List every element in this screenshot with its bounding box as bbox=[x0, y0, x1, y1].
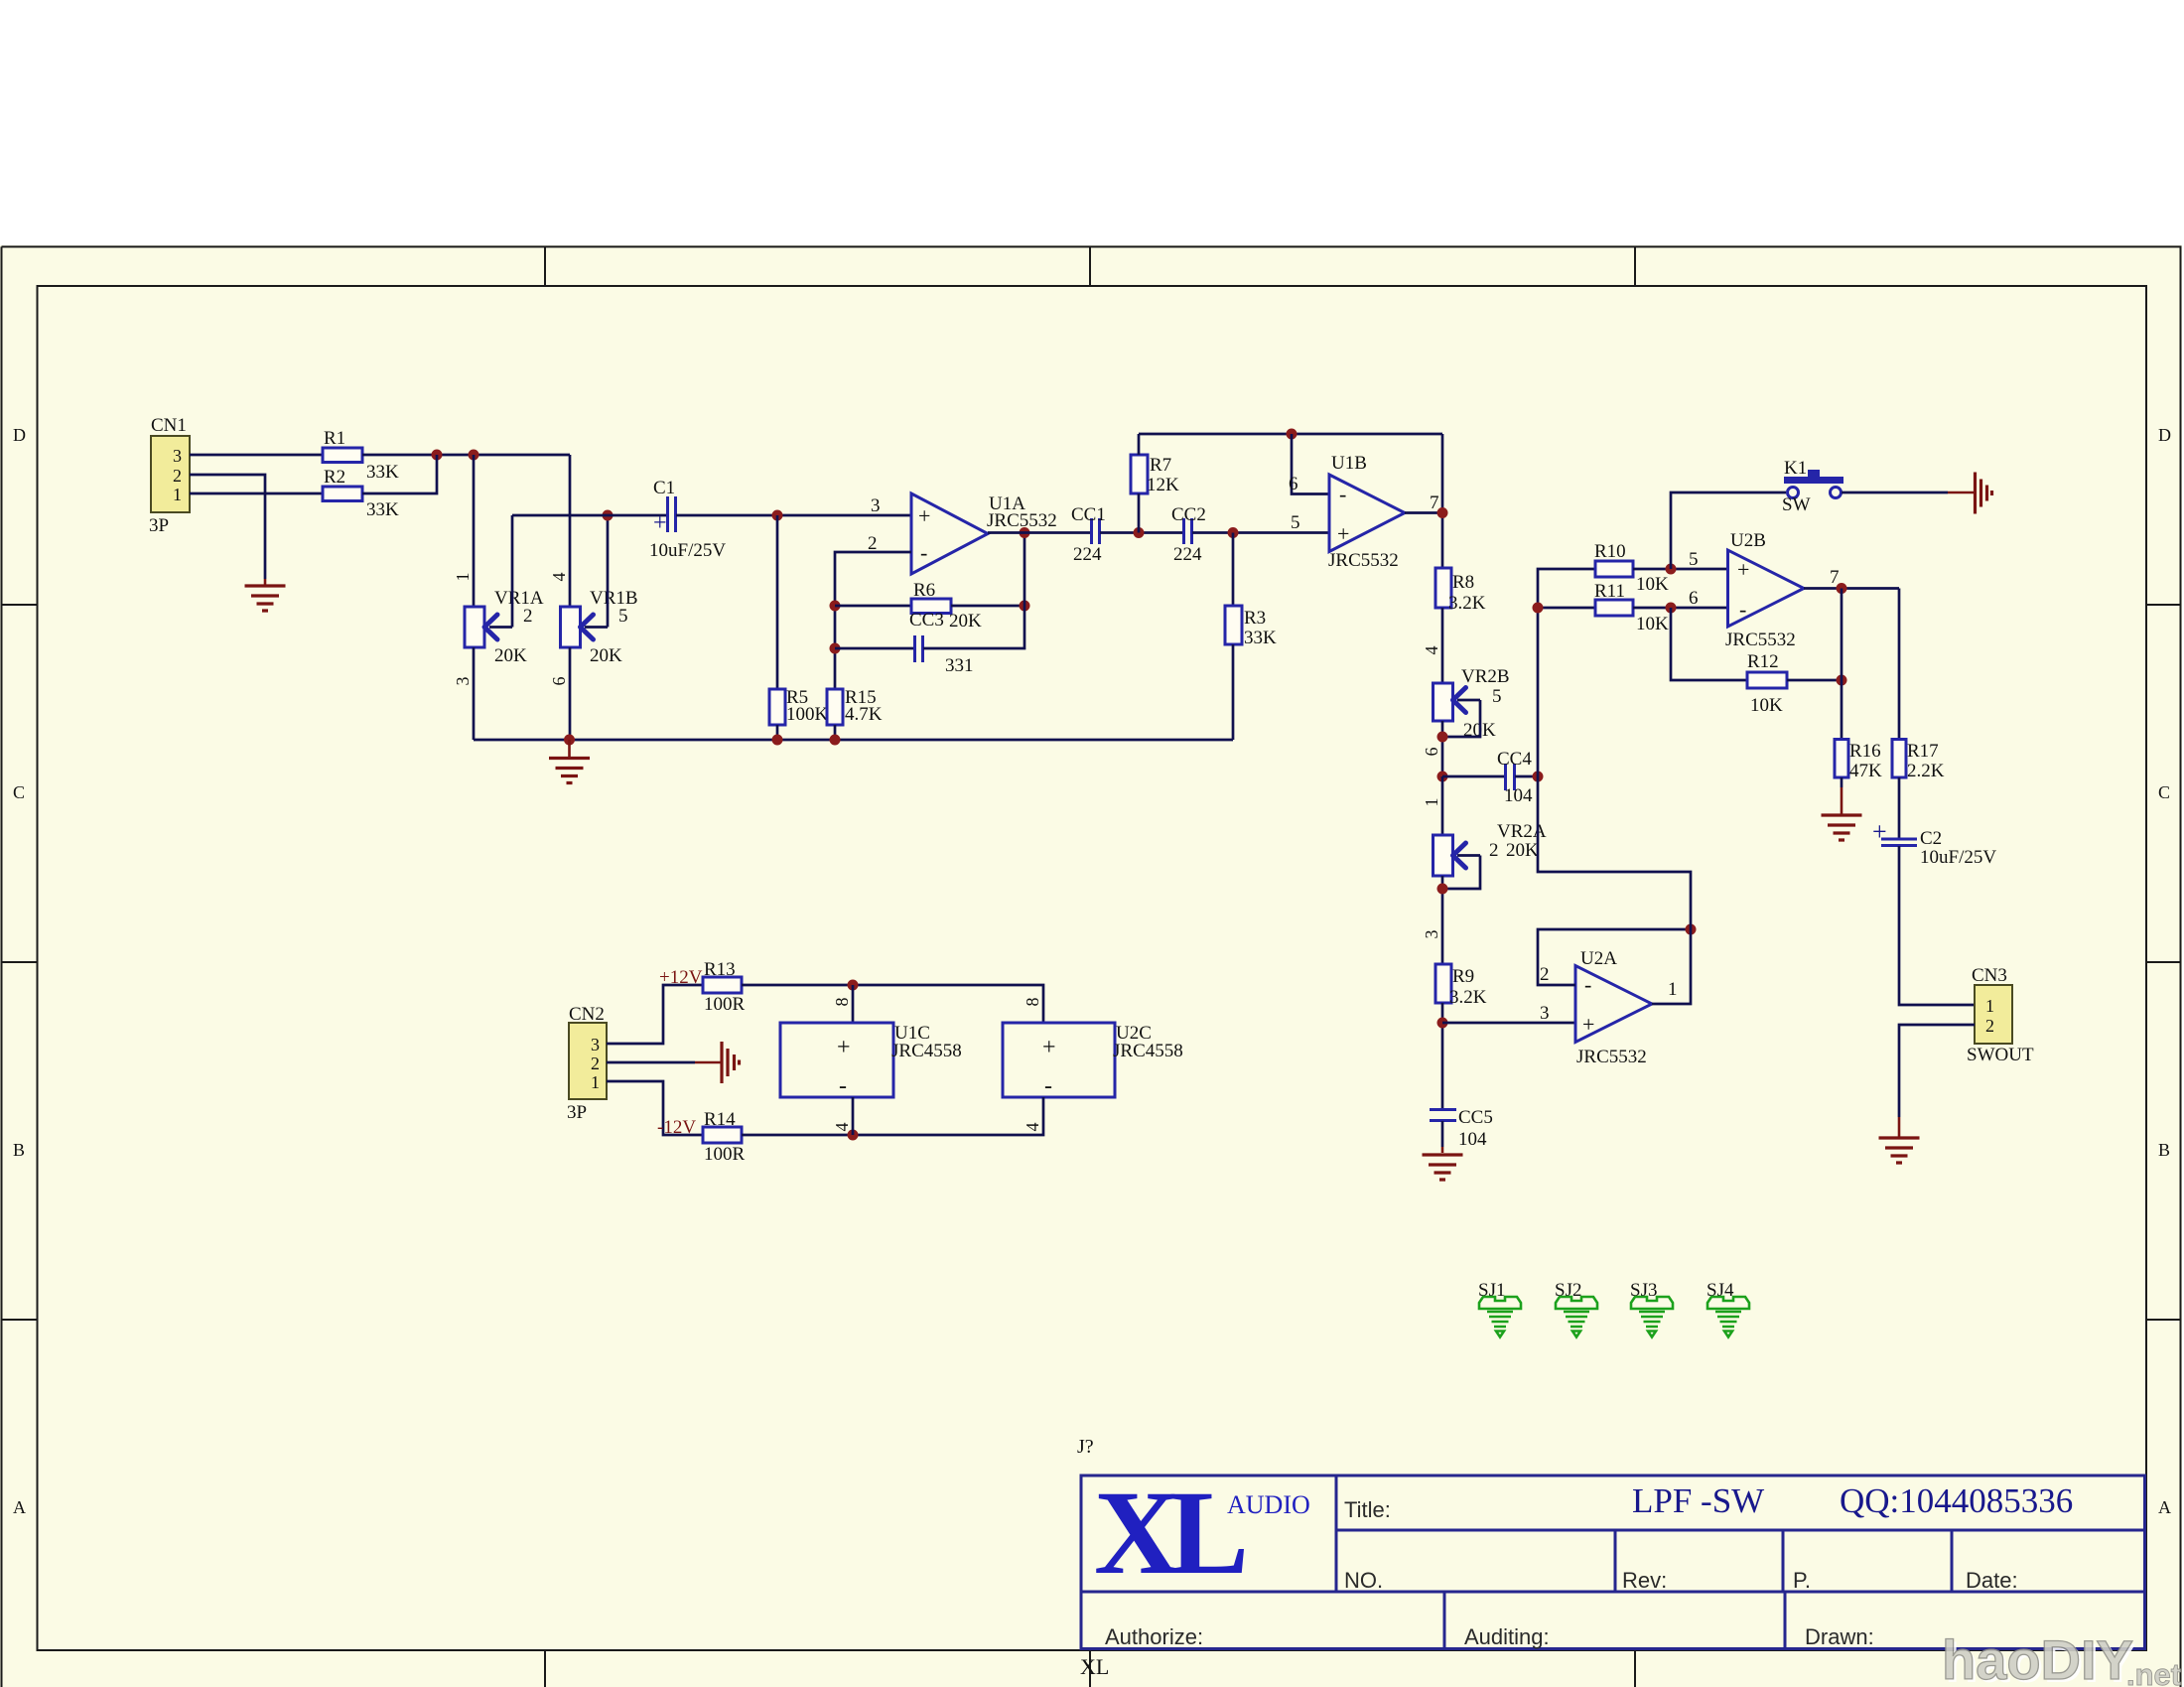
svg-text:1: 1 bbox=[1668, 979, 1678, 1000]
wire U1B output bbox=[1405, 434, 1442, 568]
resistor R8 bbox=[1435, 568, 1486, 614]
svg-text:CC5: CC5 bbox=[1458, 1107, 1493, 1128]
wire CN2 pin2 to earth bbox=[607, 1061, 695, 1064]
wire CN1 pin3 to R1 bbox=[190, 454, 323, 457]
potentiometer VR1B bbox=[561, 588, 638, 666]
svg-text:R7: R7 bbox=[1150, 455, 1171, 476]
potentiometer VR1A bbox=[465, 588, 544, 666]
wire R17 to C2 bbox=[1898, 777, 1901, 839]
title block line under NO row bbox=[1081, 1591, 2145, 1594]
resistor R5 bbox=[769, 687, 829, 725]
wire CN3 pin2 to ground bbox=[1899, 1025, 1975, 1117]
wire VR2A wiper to bottom bbox=[1442, 856, 1480, 890]
svg-text:+: + bbox=[1337, 521, 1349, 546]
wire CC3 left bbox=[835, 647, 913, 650]
svg-text:Auditing:: Auditing: bbox=[1464, 1624, 1550, 1649]
wire CC5 bottom bbox=[1441, 1121, 1444, 1147]
svg-text:104: 104 bbox=[1458, 1129, 1487, 1150]
svg-text:224: 224 bbox=[1173, 544, 1202, 565]
op-amp U1B bbox=[1328, 453, 1405, 571]
svg-text:A: A bbox=[13, 1497, 26, 1517]
node R11 left bbox=[1533, 603, 1544, 614]
svg-text:.net: .net bbox=[2126, 1657, 2181, 1687]
wire R6 left bbox=[835, 605, 911, 608]
node bottom rail ground bbox=[564, 735, 575, 746]
solder jumper SJ1 bbox=[1478, 1280, 1521, 1337]
svg-text:-: - bbox=[839, 1073, 847, 1099]
wire U1C pin8 riser bbox=[852, 985, 855, 1023]
svg-text:R12: R12 bbox=[1747, 651, 1779, 672]
svg-text:+: + bbox=[1582, 1012, 1594, 1037]
node R3 top bbox=[1228, 527, 1239, 538]
wire R6 right bbox=[951, 605, 1024, 608]
svg-text:R3: R3 bbox=[1244, 608, 1266, 629]
svg-text:Authorize:: Authorize: bbox=[1105, 1624, 1203, 1649]
svg-text:CC4: CC4 bbox=[1497, 749, 1532, 770]
svg-text:-: - bbox=[1584, 972, 1591, 997]
svg-text:K1: K1 bbox=[1784, 458, 1807, 479]
ground bottom rail bbox=[549, 740, 590, 783]
svg-text:6: 6 bbox=[1689, 588, 1699, 609]
ground CN1 bbox=[245, 579, 286, 611]
wire CN2 pin1 to R14 bbox=[607, 1081, 703, 1135]
resistor R12 bbox=[1747, 651, 1787, 716]
svg-text:SW: SW bbox=[1782, 494, 1811, 515]
svg-text:4: 4 bbox=[1023, 1123, 1042, 1132]
resistor R7 bbox=[1131, 455, 1179, 495]
svg-text:Rev:: Rev: bbox=[1622, 1568, 1667, 1593]
wire U1A output to CC1 bbox=[988, 531, 1091, 534]
svg-text:-: - bbox=[1044, 1073, 1052, 1099]
node CC4 right bbox=[1533, 772, 1544, 782]
wire R8 to VR2B bbox=[1441, 608, 1444, 683]
wire CC2 to U1B plus bbox=[1192, 531, 1329, 534]
svg-text:7: 7 bbox=[1430, 492, 1439, 513]
node VR2A bottom bbox=[1437, 884, 1448, 895]
resistor R1 bbox=[323, 428, 399, 483]
svg-text:6: 6 bbox=[1289, 474, 1298, 494]
wire R5 riser bbox=[776, 515, 779, 689]
node R5 tap bbox=[772, 510, 783, 521]
connector CN2 bbox=[567, 1004, 607, 1123]
title block Authorize/Auditing divider bbox=[1443, 1592, 1446, 1649]
svg-text:JRC4558: JRC4558 bbox=[1113, 1041, 1183, 1061]
earth ground K1 bbox=[1948, 473, 1992, 514]
svg-text:1: 1 bbox=[173, 485, 182, 504]
node R12 right bbox=[1837, 675, 1847, 686]
wire R12 right bbox=[1787, 679, 1842, 682]
node R7 bottom bbox=[1134, 527, 1145, 538]
wire C1 to U1A plus input bbox=[676, 514, 911, 517]
resistor R16 bbox=[1835, 740, 1882, 782]
svg-text:2.2K: 2.2K bbox=[1907, 761, 1945, 781]
svg-text:VR2A: VR2A bbox=[1497, 821, 1547, 842]
connector CN1 bbox=[149, 415, 190, 536]
svg-text:5: 5 bbox=[1291, 512, 1300, 533]
wire CN1 pin1 to R2 bbox=[190, 492, 323, 495]
ground R16 bbox=[1822, 787, 1862, 840]
node U2B plus tap bbox=[1666, 564, 1677, 575]
wire VR1B bottom bbox=[569, 647, 572, 740]
wire top branch down to VR1B bbox=[569, 455, 572, 606]
wire bottom rail bbox=[474, 739, 1233, 742]
svg-text:4: 4 bbox=[1422, 646, 1441, 655]
svg-text:+: + bbox=[653, 510, 667, 536]
svg-text:33K: 33K bbox=[366, 499, 399, 520]
ground CN3 bbox=[1879, 1117, 1920, 1163]
svg-text:JRC4558: JRC4558 bbox=[891, 1041, 962, 1061]
svg-text:1: 1 bbox=[1985, 996, 1994, 1016]
svg-text:104: 104 bbox=[1504, 785, 1533, 806]
wire U1C pin4 riser bbox=[852, 1097, 855, 1135]
svg-text:10uF/25V: 10uF/25V bbox=[649, 540, 726, 561]
svg-text:B: B bbox=[2158, 1140, 2170, 1160]
power block U2C bbox=[1003, 1023, 1183, 1099]
svg-text:CC3: CC3 bbox=[909, 610, 944, 631]
svg-text:SWOUT: SWOUT bbox=[1967, 1045, 2034, 1065]
wire R10 R11 source riser bbox=[1538, 569, 1595, 776]
svg-text:8: 8 bbox=[1023, 998, 1042, 1007]
wire R11 to U2B minus bbox=[1633, 607, 1727, 610]
svg-text:10K: 10K bbox=[1750, 695, 1783, 716]
wire VR1B wiper riser bbox=[607, 515, 610, 628]
svg-text:3.2K: 3.2K bbox=[1448, 593, 1486, 614]
svg-text:100R: 100R bbox=[704, 1144, 746, 1165]
wire U2A output bbox=[1652, 929, 1691, 1004]
solder jumper SJ3 bbox=[1630, 1280, 1673, 1337]
svg-text:R16: R16 bbox=[1849, 741, 1881, 762]
wire R3 bottom bbox=[1232, 644, 1235, 740]
node U2B output bbox=[1837, 583, 1847, 594]
svg-text:R13: R13 bbox=[704, 959, 736, 980]
svg-text:R11: R11 bbox=[1594, 581, 1625, 602]
svg-text:J?: J? bbox=[1077, 1436, 1094, 1458]
svg-text:JRC5532: JRC5532 bbox=[1576, 1047, 1647, 1067]
wire U2B output bbox=[1804, 587, 1899, 590]
svg-text:A: A bbox=[2158, 1497, 2171, 1517]
svg-text:2: 2 bbox=[173, 466, 182, 486]
svg-text:5: 5 bbox=[1492, 686, 1502, 707]
capacitor CC4 bbox=[1497, 749, 1533, 806]
node U2A plus tap bbox=[1437, 1018, 1448, 1029]
resistor R13 bbox=[703, 959, 746, 1015]
svg-text:2: 2 bbox=[1489, 840, 1499, 861]
watermark haoDIY.net bbox=[1942, 1628, 2181, 1687]
capacitor CC3 bbox=[909, 610, 974, 676]
svg-text:R10: R10 bbox=[1594, 541, 1626, 562]
svg-text:10K: 10K bbox=[1636, 574, 1669, 595]
svg-text:+: + bbox=[918, 503, 930, 528]
resistor R3 bbox=[1225, 606, 1277, 648]
svg-text:-: - bbox=[1339, 482, 1346, 506]
svg-text:12K: 12K bbox=[1147, 475, 1179, 495]
frame ticks right bbox=[2146, 605, 2181, 1320]
svg-text:XL: XL bbox=[1094, 1467, 1244, 1600]
node U1C pin4 bbox=[848, 1130, 859, 1141]
solder jumper SJ2 bbox=[1555, 1280, 1597, 1337]
svg-text:20K: 20K bbox=[590, 645, 622, 666]
svg-text:+: + bbox=[837, 1035, 851, 1060]
node R6 right bbox=[1020, 601, 1030, 612]
svg-text:VR1B: VR1B bbox=[590, 588, 638, 609]
svg-text:R9: R9 bbox=[1452, 966, 1474, 987]
node CC3 left bbox=[830, 643, 841, 654]
potentiometer VR2A bbox=[1433, 821, 1547, 876]
resistor R9 bbox=[1435, 964, 1487, 1008]
svg-text:CN3: CN3 bbox=[1972, 965, 2007, 986]
node CC4 left bbox=[1437, 772, 1448, 782]
svg-text:3: 3 bbox=[591, 1035, 600, 1054]
frame ticks bottom bbox=[545, 1650, 1635, 1687]
svg-text:33K: 33K bbox=[366, 462, 399, 483]
svg-text:Title:: Title: bbox=[1344, 1497, 1391, 1522]
svg-text:5: 5 bbox=[1689, 549, 1699, 570]
connector CN3 bbox=[1967, 965, 2034, 1065]
svg-text:3: 3 bbox=[1422, 930, 1441, 939]
wire C2 to CN3 pin1 bbox=[1899, 846, 1975, 1005]
svg-text:R14: R14 bbox=[704, 1109, 736, 1130]
svg-text:3: 3 bbox=[1540, 1003, 1550, 1024]
svg-text:2: 2 bbox=[1985, 1016, 1994, 1036]
svg-text:R8: R8 bbox=[1452, 572, 1474, 593]
svg-text:B: B bbox=[13, 1140, 25, 1160]
svg-text:Drawn:: Drawn: bbox=[1805, 1624, 1874, 1649]
svg-text:33K: 33K bbox=[1244, 628, 1277, 648]
power block U1C bbox=[780, 1023, 962, 1099]
svg-text:7: 7 bbox=[1830, 567, 1840, 588]
svg-text:1: 1 bbox=[591, 1072, 600, 1092]
svg-text:C: C bbox=[13, 782, 25, 802]
svg-text:8: 8 bbox=[832, 998, 852, 1007]
earth ground CN2 bbox=[695, 1042, 740, 1083]
svg-text:U2B: U2B bbox=[1730, 530, 1766, 551]
wire CN2 pin3 to R13 bbox=[607, 985, 703, 1044]
svg-text:R1: R1 bbox=[324, 428, 345, 449]
svg-text:-12V: -12V bbox=[657, 1117, 696, 1138]
svg-text:20K: 20K bbox=[949, 611, 982, 632]
title block line under Title row bbox=[1336, 1529, 2145, 1532]
node R15 bottom bbox=[830, 735, 841, 746]
svg-text:-: - bbox=[920, 540, 927, 565]
wire VR2B wiper to bottom bbox=[1442, 700, 1480, 737]
svg-text:3P: 3P bbox=[149, 515, 169, 536]
svg-text:4: 4 bbox=[549, 573, 569, 582]
svg-text:C: C bbox=[2158, 782, 2170, 802]
node R5 bottom bbox=[772, 735, 783, 746]
svg-text:3.2K: 3.2K bbox=[1449, 987, 1487, 1008]
wire K1 to earth bbox=[1842, 492, 1948, 494]
wire VR2B bottom bbox=[1441, 721, 1444, 776]
frame ticks left bbox=[2, 605, 38, 1320]
wire R12 feedback bbox=[1671, 608, 1747, 680]
wire K1 riser bbox=[1671, 492, 1786, 569]
title block P/Date divider bbox=[1951, 1530, 1954, 1592]
wire to U2A plus input bbox=[1442, 1022, 1575, 1025]
svg-text:10uF/25V: 10uF/25V bbox=[1920, 847, 1996, 868]
wire VR2A bottom bbox=[1441, 876, 1444, 967]
svg-text:-: - bbox=[1739, 597, 1746, 622]
node U2A feedback bbox=[1686, 924, 1697, 935]
svg-text:XL: XL bbox=[1080, 1654, 1109, 1679]
resistor R6 bbox=[911, 580, 982, 632]
wire CC3 right feedback bbox=[923, 533, 1024, 648]
svg-text:10K: 10K bbox=[1636, 614, 1669, 634]
svg-text:1: 1 bbox=[453, 573, 473, 582]
capacitor C1 bbox=[649, 478, 726, 561]
wire R1 to VR1B branch bbox=[362, 454, 570, 457]
svg-text:C1: C1 bbox=[653, 478, 675, 498]
capacitor CC1 bbox=[1071, 504, 1106, 565]
title block outline bbox=[1081, 1476, 2145, 1649]
node U2B minus tap bbox=[1666, 603, 1677, 614]
svg-text:4: 4 bbox=[832, 1123, 852, 1132]
svg-text:R6: R6 bbox=[913, 580, 935, 601]
svg-text:2: 2 bbox=[1540, 964, 1550, 985]
svg-text:JRC5532: JRC5532 bbox=[1328, 550, 1399, 571]
title block Rev/P divider bbox=[1782, 1530, 1785, 1592]
svg-text:20K: 20K bbox=[494, 645, 527, 666]
svg-text:C2: C2 bbox=[1920, 828, 1942, 849]
node wiper rail junction bbox=[603, 510, 614, 521]
svg-text:2: 2 bbox=[523, 606, 533, 627]
inner frame bbox=[38, 286, 2147, 1650]
svg-text:CN2: CN2 bbox=[569, 1004, 605, 1025]
wire CC4 left bbox=[1442, 775, 1504, 778]
resistor R2 bbox=[323, 467, 399, 520]
svg-text:5: 5 bbox=[618, 606, 628, 627]
wire R3 riser bbox=[1232, 533, 1235, 607]
svg-text:100K: 100K bbox=[786, 704, 829, 725]
wire U2A output feedback to CC4 node bbox=[1538, 776, 1691, 929]
svg-text:1: 1 bbox=[1422, 798, 1441, 807]
solder jumper SJ4 bbox=[1706, 1280, 1749, 1337]
wire U1B feedback top bbox=[1139, 433, 1442, 436]
node input junction 1 bbox=[432, 450, 443, 461]
potentiometer VR2B bbox=[1433, 666, 1510, 741]
svg-text:VR2B: VR2B bbox=[1461, 666, 1510, 687]
capacitor C2 bbox=[1872, 817, 1996, 868]
svg-text:CC1: CC1 bbox=[1071, 504, 1106, 525]
resistor R15 bbox=[827, 687, 883, 725]
svg-text:D: D bbox=[13, 425, 26, 445]
svg-text:CC2: CC2 bbox=[1171, 504, 1206, 525]
node input junction 2 bbox=[469, 450, 479, 461]
wire CN1 pin2 to ground bbox=[190, 475, 265, 579]
svg-text:6: 6 bbox=[1422, 748, 1441, 757]
svg-text:+12V: +12V bbox=[659, 967, 703, 988]
node VR2B bottom bbox=[1437, 732, 1448, 743]
wire VR1A wiper riser bbox=[511, 515, 514, 628]
svg-text:2: 2 bbox=[591, 1054, 600, 1073]
svg-text:haoDIY: haoDIY bbox=[1942, 1628, 2133, 1687]
wire junction2 down to VR1A bbox=[473, 455, 476, 606]
capacitor CC5 bbox=[1430, 1107, 1493, 1150]
svg-text:NO.: NO. bbox=[1344, 1568, 1383, 1593]
resistor R14 bbox=[703, 1109, 746, 1165]
wire CC1 to CC2 bbox=[1100, 531, 1183, 534]
wire wiper rail to C1 bbox=[512, 514, 666, 517]
svg-text:AUDIO: AUDIO bbox=[1227, 1490, 1310, 1519]
svg-text:4.7K: 4.7K bbox=[845, 704, 883, 725]
capacitor CC2 bbox=[1171, 504, 1206, 565]
svg-text:LPF -SW: LPF -SW bbox=[1632, 1481, 1764, 1520]
wire R5 bottom bbox=[776, 725, 779, 740]
svg-text:100R: 100R bbox=[704, 994, 746, 1015]
op-amp U2A bbox=[1575, 948, 1652, 1067]
resistor R11 bbox=[1594, 581, 1669, 634]
wire minus rail bbox=[742, 1097, 1043, 1135]
ground CC5 bbox=[1423, 1147, 1463, 1180]
resistor R17 bbox=[1892, 740, 1945, 782]
title block logo cell divider bbox=[1335, 1476, 1338, 1592]
wire VR1A bottom bbox=[473, 647, 476, 740]
op-amp U1A bbox=[911, 493, 1057, 574]
svg-text:VR1A: VR1A bbox=[494, 588, 544, 609]
wire R9 bottom bbox=[1441, 1003, 1444, 1110]
svg-text:3: 3 bbox=[173, 446, 182, 466]
svg-text:JRC5532: JRC5532 bbox=[1725, 630, 1796, 650]
svg-text:QQ:1044085336: QQ:1044085336 bbox=[1840, 1481, 2073, 1520]
wire VR2A riser bbox=[1441, 776, 1444, 835]
svg-text:331: 331 bbox=[945, 655, 974, 676]
frame ticks top bbox=[545, 247, 1635, 287]
node R6 left bbox=[830, 601, 841, 612]
wire U2A minus input bbox=[1538, 929, 1691, 985]
svg-text:3: 3 bbox=[453, 677, 473, 686]
svg-text:Date:: Date: bbox=[1966, 1568, 2018, 1593]
wire R10 to U2B plus bbox=[1633, 568, 1727, 571]
svg-text:CN1: CN1 bbox=[151, 415, 187, 436]
wire R15 bottom bbox=[834, 725, 837, 740]
svg-text:R2: R2 bbox=[324, 467, 345, 488]
svg-text:D: D bbox=[2158, 425, 2171, 445]
wire U1A minus input bbox=[835, 552, 911, 689]
svg-text:20K: 20K bbox=[1506, 840, 1539, 861]
svg-text:+: + bbox=[1872, 817, 1887, 846]
title block NO/Rev divider bbox=[1614, 1530, 1617, 1592]
svg-text:P.: P. bbox=[1793, 1568, 1811, 1593]
wire CC4 right bbox=[1515, 775, 1538, 778]
resistor R10 bbox=[1594, 541, 1669, 595]
svg-text:U2A: U2A bbox=[1580, 948, 1617, 969]
svg-text:+: + bbox=[1042, 1035, 1056, 1060]
wire U1B minus branch bbox=[1292, 434, 1329, 494]
switch K1 bbox=[1782, 458, 1843, 515]
node U1C pin8 bbox=[848, 980, 859, 991]
svg-text:47K: 47K bbox=[1849, 761, 1882, 781]
svg-text:6: 6 bbox=[549, 677, 569, 686]
svg-text:+: + bbox=[1737, 557, 1749, 582]
svg-text:224: 224 bbox=[1073, 544, 1102, 565]
wire R17 riser bbox=[1898, 589, 1901, 740]
wire U2B output to R16 bbox=[1841, 589, 1843, 740]
node U1B output bbox=[1437, 507, 1448, 518]
svg-text:R17: R17 bbox=[1907, 741, 1939, 762]
svg-text:3P: 3P bbox=[567, 1102, 587, 1123]
node U1A output bbox=[1020, 527, 1030, 538]
node U1B feedback tap bbox=[1287, 429, 1297, 440]
wire plus rail bbox=[742, 985, 1043, 1023]
op-amp U2B bbox=[1725, 530, 1804, 650]
svg-text:3: 3 bbox=[871, 495, 881, 516]
svg-text:U1B: U1B bbox=[1331, 453, 1367, 474]
title block Auditing/Drawn divider bbox=[1784, 1592, 1787, 1649]
wire R7 riser top bbox=[1138, 434, 1141, 533]
wire R16 bottom bbox=[1841, 777, 1843, 787]
wire R2 to junction 1 bbox=[362, 455, 437, 493]
